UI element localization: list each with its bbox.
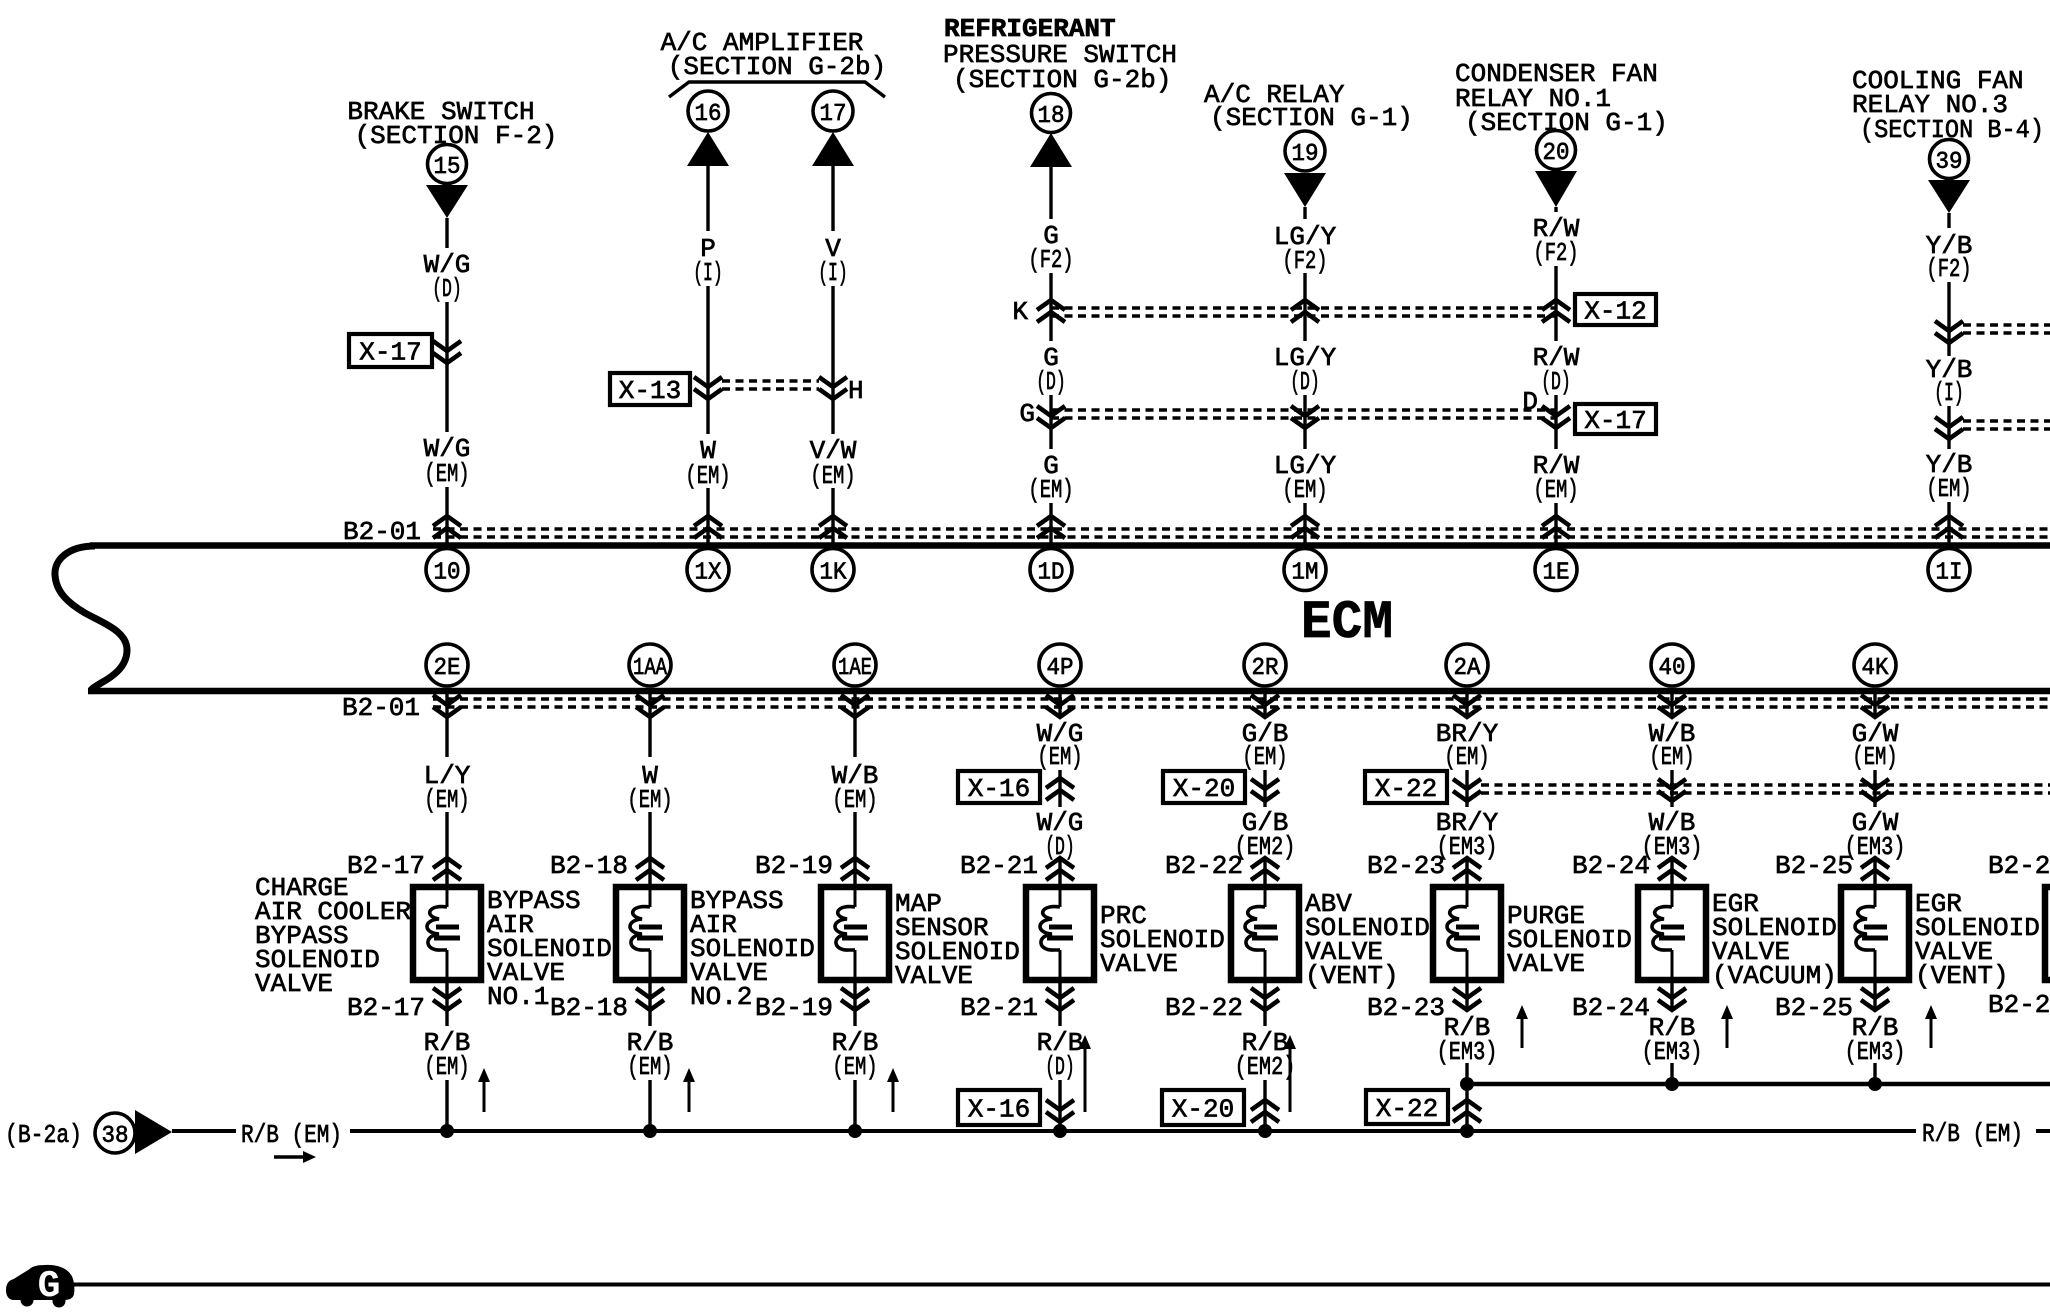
svg-text:(EM): (EM) [685,461,730,491]
dashed link G row [1051,408,1556,412]
connector chevron B2-18 lower [636,988,664,1010]
connector X-22 box top x1467 [1365,771,1447,803]
wire col-D seg2 [1049,273,1052,341]
wire x855 to valve [853,812,856,884]
junction dot EM3 x1875 [1868,1077,1882,1091]
wire x855 to ground bus [853,1080,856,1131]
wire x855 below valve [853,983,856,1026]
svg-text:(EM): (EM) [424,459,469,489]
svg-text:R/B (EM): R/B (EM) [1922,1119,2023,1149]
connector chevron B2-01 bottom x1875 [1861,695,1889,717]
connector chevron X-16 bottom [1046,1100,1074,1122]
wire x1875 below bus [1873,694,1876,718]
svg-text:X-16: X-16 [968,1095,1030,1125]
ECM pin 10 [426,549,468,591]
svg-text:1E: 1E [1543,560,1570,587]
svg-text:B2-22: B2-22 [1165,993,1243,1023]
svg-text:1K: 1K [820,560,848,587]
connector chevron B2-17 upper [433,858,461,880]
svg-text:(EM): (EM) [832,1052,877,1082]
flow arrow x1727 [1726,1017,1729,1048]
wire col-F seg1 [1554,207,1557,212]
svg-text:(EM): (EM) [1852,742,1897,772]
svg-text:39: 39 [1936,149,1963,176]
flow arrow x1931 [1930,1017,1933,1048]
wire x1467 below bus [1465,694,1468,718]
wire x855 below bus [853,694,856,757]
connector chevron K col-E [1291,300,1319,322]
connector X-20 box bottom [1162,1090,1244,1125]
svg-text:VALVE: VALVE [255,969,333,999]
svg-text:B2-24: B2-24 [1572,851,1650,881]
wire col-D seg4 [1049,503,1052,543]
svg-text:(VENT): (VENT) [1305,961,1399,991]
wire x1875 mid seg [1873,770,1876,807]
wire x650 below valve [648,983,651,1026]
connector circle 39 [1930,140,1969,179]
wire x1672 to valve [1670,858,1673,884]
solenoid valve x1672 [1638,887,1706,980]
wire R/B (EM) ground bus [350,1129,1916,1133]
svg-text:B2-26: B2-26 [1988,990,2050,1020]
svg-text:20: 20 [1543,140,1570,167]
ECM left brace curve [55,546,127,691]
wire x447 below bus [445,694,448,757]
junction dot x447 [440,1124,454,1138]
page ground line [72,1283,2050,1287]
connector X-16 box top x1060 [958,771,1040,803]
connector chevron G-row col-D [1037,406,1065,428]
dashed link X-22 row [1481,783,2050,787]
svg-text:(EM): (EM) [424,785,469,815]
svg-text:18: 18 [1038,103,1065,130]
connector chevron B2-25 lower [1861,988,1889,1010]
svg-text:X-16: X-16 [968,774,1030,804]
ECM pin 1I [1928,549,1970,591]
flow arrow x1290 [1289,1047,1292,1112]
wire col-F seg4 [1554,503,1557,543]
wire col-F seg2 [1554,266,1557,341]
connector chevron B2-01 top col-F [1542,516,1570,538]
connector X-12 box [1575,294,1656,325]
svg-text:(EM): (EM) [1444,742,1489,772]
wire col-D seg1 [1049,167,1052,219]
wire x1060 to valve [1058,858,1061,884]
svg-text:B2-26: B2-26 [1988,851,2050,881]
svg-text:B2-24: B2-24 [1572,993,1650,1023]
wire col-E seg1 [1303,207,1306,219]
connector chevron X-22 bottom [1453,1100,1481,1122]
junction dot EM3 x1672 [1665,1077,1679,1091]
wire col-G seg2 [1947,282,1950,356]
wire col-E seg3 [1303,395,1306,449]
junction dot EM3 x1467 [1460,1077,1474,1091]
svg-text:(F2): (F2) [1282,246,1327,276]
connector chevron chev top x1672 [1658,779,1686,801]
wire x1467 through EM3 bus [1465,1063,1468,1131]
wire x1265 mid seg [1263,770,1266,807]
connector chevron B2-22 lower [1251,988,1279,1010]
svg-text:1AA: 1AA [633,655,667,682]
svg-text:(EM): (EM) [832,785,877,815]
partial solenoid valve box right edge [2045,887,2050,980]
wire col-G seg4 [1947,502,1950,543]
connector chevron B2-01 bottom x1060 [1046,695,1074,717]
solenoid valve x1265 [1231,887,1299,980]
svg-text:40: 40 [1659,655,1686,682]
connector chevron chev top x1875 [1861,779,1889,801]
connector X-17 box col-A [349,334,432,367]
dashed link B2-01 bottom [433,697,2050,701]
wire x1060 below bus [1058,694,1061,718]
connector circle 19 [1285,131,1325,171]
svg-text:B2-18: B2-18 [550,851,628,881]
arrow into diagram at 19 [1284,173,1326,207]
wire col-B seg1 [706,166,709,231]
connector chevron B2-01 bottom x1672 [1658,695,1686,717]
svg-text:B2-19: B2-19 [755,993,833,1023]
solenoid valve x1060 [1026,887,1094,980]
ECM pin 40 [1651,644,1693,686]
wire col-F seg3 [1554,395,1557,449]
svg-text:2E: 2E [434,655,461,682]
svg-text:H: H [848,376,864,406]
solenoid valve x650 [616,887,684,980]
wire col-G seg3 [1947,406,1950,449]
arrow out at 16 [687,132,729,166]
connector circle 17 [813,91,853,131]
svg-text:(F2): (F2) [1028,245,1073,275]
svg-text:X-22: X-22 [1375,774,1437,804]
svg-text:(D): (D) [432,274,462,304]
connector X-16 box bottom [958,1090,1040,1125]
connector chevron col-G row1 [1935,321,1963,343]
wire x1467 to valve [1465,858,1468,884]
flow arrow x893 [892,1080,895,1112]
svg-text:B2-17: B2-17 [347,851,425,881]
svg-text:X-12: X-12 [1584,297,1646,327]
svg-text:X-17: X-17 [359,338,421,368]
dashed link X-13 [722,379,819,383]
wire R/B (EM3) bus [1467,1082,2050,1087]
svg-text:(VACUUM): (VACUUM) [1712,961,1837,991]
arrow out at 17 [812,132,854,166]
dashed link col-G row2 [1963,419,2050,423]
wire x1265 to ground bus [1263,1080,1266,1131]
svg-text:2A: 2A [1454,655,1482,682]
junction dot x1467 [1460,1124,1474,1138]
ECM pin 1X [687,549,729,591]
connector chevron B2-18 upper [636,858,664,880]
svg-text:B2-17: B2-17 [347,993,425,1023]
svg-text:VALVE: VALVE [895,961,973,991]
wire x1467 below valve [1465,983,1468,1011]
svg-text:X-20: X-20 [1173,774,1235,804]
svg-text:B2-22: B2-22 [1165,851,1243,881]
connector chevron B2-01 top col-B [694,516,722,538]
wire col-B seg3 [706,488,709,543]
svg-text:(EM): (EM) [810,461,855,491]
arrow into diagram at 20 [1535,171,1577,207]
wire x1672 to EM3 bus [1670,1063,1673,1084]
connector chevron B2-23 upper [1453,858,1481,880]
connector chevron B2-25 upper [1861,858,1889,880]
svg-text:(F2): (F2) [1926,254,1971,284]
wire x1875 to EM3 bus [1873,1063,1876,1084]
wire from 38 [172,1129,236,1133]
solenoid valve x1875 [1841,887,1909,980]
wire col-E seg2 [1303,273,1306,341]
wire x1875 to valve [1873,858,1876,884]
svg-text:G: G [38,1265,61,1308]
connector chevron B2-01 top col-G [1935,516,1963,538]
svg-text:B2-23: B2-23 [1367,851,1445,881]
connector circle 18 [1032,94,1071,133]
wire x1060 mid seg [1058,770,1061,807]
svg-text:(D): (D) [1290,367,1320,397]
connector chevron X-16 top x1060 [1046,778,1074,800]
ECM pin 1D [1030,549,1072,591]
connector chevron X-13 col-B [694,377,722,399]
connector chevron X-17 col-A [433,341,461,363]
ECM pin 2E [426,644,468,686]
wire col-A seg2 [445,302,448,432]
connector chevron G-row col-F [1542,406,1570,428]
wire x1060 to ground bus [1058,1080,1061,1131]
svg-text:(SECTION G-1): (SECTION G-1) [1210,103,1413,133]
connector chevron K col-F [1542,300,1570,322]
junction dot x1265 [1258,1124,1272,1138]
wire col-A seg3 [445,487,448,543]
svg-text:1M: 1M [1292,560,1319,587]
connector chevron B2-01 top col-D [1037,516,1065,538]
connector chevron B2-01 top col-A [433,516,461,538]
ECM top bus line [90,542,2050,549]
svg-text:X-13: X-13 [619,376,681,406]
wire col-B seg2 [706,286,709,434]
connector circle 16 [688,91,728,131]
ECM pin 4K [1854,644,1896,686]
svg-text:(SECTION G-2b): (SECTION G-2b) [953,65,1171,95]
svg-text:1D: 1D [1038,560,1065,587]
ECM pin 4P [1039,644,1081,686]
connector chevron B2-01 top col-E [1291,516,1319,538]
dashed link col-G row1 [1963,323,2050,327]
svg-text:(EM2): (EM2) [1235,1052,1296,1082]
wire x447 to ground bus [445,1080,448,1131]
svg-text:(EM): (EM) [1282,475,1327,505]
wire x1265 to valve [1263,858,1266,884]
svg-text:(EM3): (EM3) [1845,1037,1906,1067]
connector chevron B2-24 lower [1658,988,1686,1010]
connector chevron B2-01 top col-C [819,516,847,538]
svg-text:4K: 4K [1862,655,1890,682]
svg-text:38: 38 [102,1123,129,1150]
connector chevron B2-01 bottom x447 [433,695,461,717]
ECM pin 1AE [834,644,876,686]
connector chevron B2-23 lower [1453,988,1481,1010]
svg-text:(EM): (EM) [1037,742,1082,772]
connector chevron B2-19 upper [841,858,869,880]
connector chevron B2-21 upper [1046,858,1074,880]
wire x1265 below valve [1263,983,1266,1026]
flow arrow x484 [483,1080,486,1112]
svg-text:(I): (I) [1934,378,1964,408]
svg-text:B2-21: B2-21 [960,851,1038,881]
svg-text:4P: 4P [1047,655,1074,682]
svg-text:ECM: ECM [1301,593,1393,654]
wire x1672 below bus [1670,694,1673,718]
connector X-13 box [610,373,690,405]
dashed link B2-01 top [433,527,2050,531]
connector X-17 box col-F [1575,404,1656,434]
ECM bottom bus line [88,688,2050,695]
wire x650 below bus [648,694,651,757]
svg-text:(SECTION G-2b): (SECTION G-2b) [668,52,886,82]
flow arrow right [274,1155,306,1159]
svg-text:(B-2a): (B-2a) [5,1120,82,1150]
svg-text:B2-25: B2-25 [1775,993,1853,1023]
connector circle 15 [428,145,467,184]
connector X-22 box bottom [1366,1090,1448,1124]
wire x650 to ground bus [648,1080,651,1131]
svg-text:(EM): (EM) [1028,475,1073,505]
svg-text:(EM): (EM) [1533,475,1578,505]
svg-text:B2-01: B2-01 [342,693,420,723]
connector circle 38 [95,1113,135,1153]
svg-text:(I): (I) [818,258,848,288]
svg-text:VALVE: VALVE [1507,949,1585,979]
connector chevron X-20 top x1265 [1251,779,1279,801]
svg-text:1X: 1X [695,560,722,587]
svg-text:(F2): (F2) [1533,238,1578,268]
connector chevron B2-17 lower [433,988,461,1010]
connector chevron B2-01 bottom x650 [636,695,664,717]
svg-text:1I: 1I [1936,560,1963,587]
svg-text:1AE: 1AE [838,655,872,682]
connector chevron B2-01 bottom x1467 [1453,695,1481,717]
connector chevron B2-21 lower [1046,988,1074,1010]
connector chevron B2-19 lower [841,988,869,1010]
svg-text:(EM): (EM) [1649,742,1694,772]
connector circle 20 [1537,131,1576,170]
svg-text:(EM): (EM) [627,1052,672,1082]
svg-text:X-17: X-17 [1584,406,1646,436]
connector chevron B2-22 upper [1251,858,1279,880]
svg-text:19: 19 [1292,141,1319,168]
svg-text:B2-25: B2-25 [1775,851,1853,881]
junction dot x855 [848,1124,862,1138]
svg-text:R/B (EM): R/B (EM) [241,1120,342,1150]
wire col-G seg1 [1947,213,1950,228]
svg-text:2R: 2R [1252,655,1279,682]
ground symbol car G [7,1266,73,1299]
svg-text:G: G [1019,399,1035,429]
wire x1875 below valve [1873,983,1876,1011]
svg-text:(EM): (EM) [1242,742,1287,772]
svg-text:17: 17 [820,101,847,128]
wire col-E seg4 [1303,503,1306,543]
flow arrow x1522 [1521,1017,1524,1048]
svg-text:16: 16 [695,101,722,128]
svg-text:NO.2: NO.2 [690,982,752,1012]
arrow into diagram at 15 [426,185,468,218]
connector chevron X-13 col-C [819,377,847,399]
connector chevron K col-D [1037,300,1065,322]
svg-text:15: 15 [434,154,461,181]
solenoid valve x1467 [1433,887,1501,980]
connector X-20 box top x1265 [1163,771,1245,803]
junction dot x1060 [1053,1124,1067,1138]
svg-text:B2-18: B2-18 [550,993,628,1023]
wire col-C seg1 [831,166,834,231]
connector chevron col-G row2 [1935,417,1963,439]
wire x1672 below valve [1670,983,1673,1011]
solenoid valve x447 [413,887,481,980]
svg-text:K: K [1012,297,1028,327]
svg-text:(EM): (EM) [1926,474,1971,504]
connector chevron G-row col-E [1291,406,1319,428]
svg-text:(D): (D) [1045,1052,1075,1082]
dashed link K row [1051,306,1556,310]
svg-text:X-22: X-22 [1376,1094,1438,1124]
connector chevron X-20 bottom [1251,1100,1279,1122]
connector chevron X-22 top x1467 [1453,779,1481,801]
svg-text:(EM): (EM) [424,1052,469,1082]
ECM pin 2A [1446,644,1488,686]
wire x1467 mid seg [1465,770,1468,807]
ECM pin 1E [1535,549,1577,591]
connector chevron B2-24 upper [1658,858,1686,880]
wire col-D seg3 [1049,395,1052,449]
svg-text:B2-23: B2-23 [1367,993,1445,1023]
wire x447 below valve [445,983,448,1026]
svg-text:(I): (I) [693,258,723,288]
arrow into diagram at 38 [135,1110,172,1154]
wire x650 to valve [648,812,651,884]
svg-text:X-20: X-20 [1172,1095,1234,1125]
wire x1672 mid seg [1670,770,1673,807]
svg-text:(EM): (EM) [627,785,672,815]
connector chevron B2-01 bottom x855 [841,695,869,717]
svg-text:10: 10 [434,560,461,587]
wire x1265 below bus [1263,694,1266,718]
wire R/B (EM) stub right [2036,1129,2050,1133]
svg-text:VALVE: VALVE [1100,949,1178,979]
solenoid valve x855 [821,887,889,980]
svg-text:(D): (D) [1541,367,1571,397]
ECM pin 2R [1244,644,1286,686]
wire col-C seg3 [831,488,834,543]
flow arrow x1085 [1084,1047,1087,1112]
svg-text:(EM3): (EM3) [1642,1037,1703,1067]
svg-text:B2-19: B2-19 [755,851,833,881]
junction dot x650 [643,1124,657,1138]
svg-text:B2-21: B2-21 [960,993,1038,1023]
svg-text:(D): (D) [1036,367,1066,397]
svg-text:(VENT): (VENT) [1915,961,2009,991]
flow arrow x689 [688,1080,691,1112]
wire x1060 below valve [1058,983,1061,1026]
bracket over A/C amplifier pins [669,82,885,97]
connector chevron B2-01 bottom x1265 [1251,695,1279,717]
arrow out at 18 [1030,133,1072,167]
wire col-A seg1 [445,218,448,248]
svg-text:D: D [1522,387,1538,417]
svg-text:NO.1: NO.1 [487,982,549,1012]
svg-text:(EM3): (EM3) [1437,1037,1498,1067]
wire col-C seg2 [831,286,834,434]
